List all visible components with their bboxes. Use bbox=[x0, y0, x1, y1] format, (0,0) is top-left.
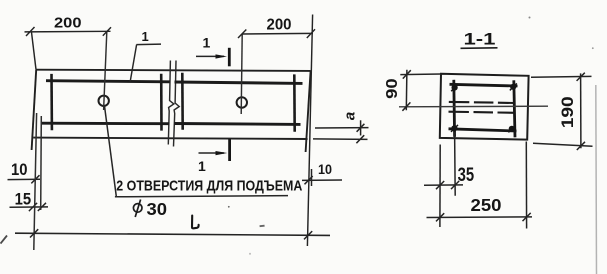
svg-text:30: 30 bbox=[147, 199, 168, 219]
hole hidden line lower bbox=[449, 112, 516, 113]
break line left bbox=[168, 61, 174, 145]
svg-text:10: 10 bbox=[318, 161, 332, 177]
dimension 200 left bbox=[25, 27, 112, 70]
rebar top chord bbox=[46, 81, 303, 84]
length label L bbox=[192, 216, 199, 229]
svg-text:35: 35 bbox=[458, 165, 475, 186]
svg-text:2 ОТВЕРСТИЯ ДЛЯ ПОДЪЕМА: 2 ОТВЕРСТИЯ ДЛЯ ПОДЪЕМА bbox=[116, 177, 302, 194]
hole hidden line upper bbox=[449, 102, 515, 103]
break line right bbox=[174, 61, 180, 147]
stirrup tick 1 bbox=[50, 74, 53, 130]
diameter symbol bbox=[133, 200, 142, 218]
dimension 35 bbox=[424, 132, 463, 196]
dimension 10 left bbox=[8, 175, 41, 183]
svg-text:90: 90 bbox=[384, 78, 401, 99]
dimension 15 left bbox=[10, 203, 49, 211]
svg-text:190: 190 bbox=[558, 96, 577, 128]
rebar dot TL bbox=[451, 84, 458, 91]
axis line through hole 2 bbox=[241, 34, 242, 114]
svg-text:1: 1 bbox=[142, 29, 149, 44]
beam outline bbox=[32, 70, 311, 152]
section mark bottom bbox=[199, 139, 230, 161]
rebar dot TR bbox=[510, 83, 517, 90]
dimension a bbox=[313, 120, 369, 143]
rebar dot BR bbox=[508, 125, 515, 132]
section centerline bbox=[399, 105, 548, 108]
svg-text:250: 250 bbox=[471, 195, 502, 215]
svg-text:10: 10 bbox=[11, 160, 28, 179]
hole leader line bbox=[105, 106, 289, 197]
stirrup tick 2 bbox=[160, 74, 163, 131]
section mark top bbox=[196, 48, 229, 67]
dimension 190 bbox=[531, 73, 593, 150]
section stirrup bbox=[449, 80, 518, 138]
stirrup tick 4 bbox=[293, 74, 296, 131]
extension line left A bbox=[34, 113, 37, 250]
svg-text:15: 15 bbox=[15, 190, 32, 209]
dimension 250 bbox=[427, 142, 533, 229]
item label 1 leader bbox=[130, 44, 161, 81]
rebar dot BL bbox=[451, 125, 458, 132]
dimension 10 right bbox=[302, 169, 342, 186]
corner pencil mark bbox=[1, 236, 8, 244]
svg-text:1: 1 bbox=[203, 35, 211, 51]
stirrup tick 3 bbox=[181, 73, 184, 130]
svg-text:1: 1 bbox=[198, 158, 206, 174]
axis line through hole 1 bbox=[104, 32, 107, 110]
svg-text:1-1: 1-1 bbox=[464, 30, 496, 49]
sheet fold line right bbox=[595, 85, 598, 274]
extension line left B bbox=[40, 116, 43, 210]
dimension L bbox=[15, 233, 330, 235]
dimension 90 bbox=[400, 70, 441, 111]
rebar bottom chord bbox=[41, 123, 301, 124]
svg-text:200: 200 bbox=[54, 14, 82, 31]
dimension 200 right bbox=[238, 15, 315, 247]
paper specks bbox=[228, 17, 594, 255]
svg-text:a: a bbox=[342, 112, 359, 120]
lifting hole 2 bbox=[237, 97, 247, 107]
svg-text:200: 200 bbox=[267, 17, 292, 34]
lifting hole 1 bbox=[99, 96, 109, 106]
section outer contour bbox=[440, 74, 529, 140]
